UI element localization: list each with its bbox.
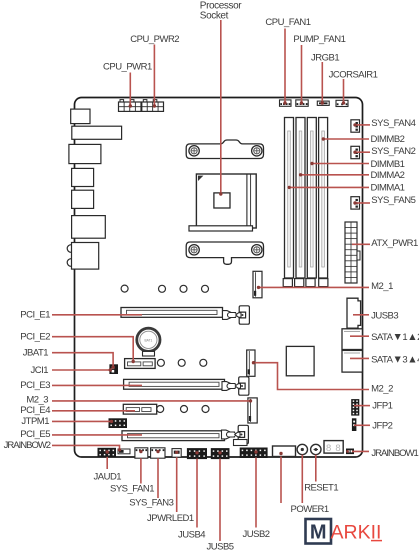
svg-text:SYS_FAN1: SYS_FAN1 — [110, 483, 154, 494]
svg-text:JFP2: JFP2 — [372, 421, 392, 432]
svg-text:JPWRLED1: JPWRLED1 — [147, 513, 194, 524]
svg-text:M: M — [310, 522, 327, 544]
svg-text:Socket: Socket — [200, 11, 229, 22]
svg-text:DIMMB1: DIMMB1 — [371, 159, 405, 170]
svg-text:BAT1: BAT1 — [145, 338, 153, 342]
svg-text:SATA▼1▲2: SATA▼1▲2 — [371, 331, 419, 343]
svg-text:DIMMA1: DIMMA1 — [371, 183, 405, 194]
svg-text:DIMMB2: DIMMB2 — [371, 134, 405, 145]
svg-text:JUSB4: JUSB4 — [178, 530, 205, 541]
svg-text:RESET1: RESET1 — [304, 483, 338, 494]
svg-text:M2_2: M2_2 — [371, 384, 393, 395]
svg-text:SYS_FAN3: SYS_FAN3 — [129, 497, 173, 508]
svg-text:SYS_FAN2: SYS_FAN2 — [371, 146, 415, 157]
svg-text:M2_1: M2_1 — [371, 281, 393, 292]
svg-text:JTPM1: JTPM1 — [21, 416, 49, 427]
svg-text:JBAT1: JBAT1 — [23, 347, 49, 358]
svg-text:CPU_FAN1: CPU_FAN1 — [265, 17, 310, 28]
svg-text:SYS_FAN5: SYS_FAN5 — [371, 195, 415, 206]
svg-text:CPU_PWR2: CPU_PWR2 — [130, 34, 179, 45]
svg-text:PCI_E2: PCI_E2 — [20, 331, 50, 342]
svg-text:POWER1: POWER1 — [291, 504, 329, 515]
svg-text:PCI_E3: PCI_E3 — [20, 380, 50, 391]
svg-text:JCORSAIR1: JCORSAIR1 — [329, 70, 378, 81]
svg-text:JUSB5: JUSB5 — [207, 542, 234, 550]
svg-text:PCI_E1: PCI_E1 — [20, 309, 50, 320]
svg-text:ATX_PWR1: ATX_PWR1 — [371, 238, 418, 249]
svg-text:JUSB3: JUSB3 — [371, 310, 398, 321]
svg-text:JFP1: JFP1 — [372, 401, 392, 412]
svg-text:DIMMA2: DIMMA2 — [371, 170, 405, 181]
svg-text:8: 8 — [335, 443, 340, 454]
svg-text:8: 8 — [326, 443, 331, 454]
svg-text:JUSB2: JUSB2 — [243, 529, 270, 540]
svg-text:JCI1: JCI1 — [31, 365, 49, 376]
svg-text:PCI_E4: PCI_E4 — [20, 405, 50, 416]
svg-text:PUMP_FAN1: PUMP_FAN1 — [293, 34, 345, 45]
svg-text:SATA▼3▲4: SATA▼3▲4 — [371, 353, 419, 365]
svg-text:SYS_FAN4: SYS_FAN4 — [371, 118, 415, 129]
svg-text:PCI_E5: PCI_E5 — [20, 429, 50, 440]
svg-text:JAUD1: JAUD1 — [94, 472, 122, 483]
svg-text:JRGB1: JRGB1 — [311, 53, 339, 64]
svg-text:CPU_PWR1: CPU_PWR1 — [103, 62, 152, 73]
svg-text:JRAINBOW2: JRAINBOW2 — [4, 440, 51, 451]
svg-text:JRAINBOW1: JRAINBOW1 — [371, 448, 418, 459]
svg-text:M2_3: M2_3 — [26, 394, 48, 405]
